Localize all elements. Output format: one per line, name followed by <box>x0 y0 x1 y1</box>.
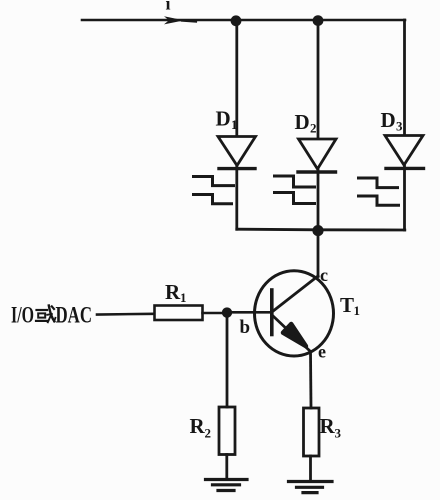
svg-text:3: 3 <box>335 426 342 441</box>
svg-text:c: c <box>320 265 328 285</box>
wire D2 branch lower <box>317 170 320 231</box>
wire right corner drop (D3 branch upper) <box>403 20 406 135</box>
svg-text:e: e <box>318 342 326 362</box>
node junction base <box>222 307 232 317</box>
svg-text:1: 1 <box>354 303 361 318</box>
svg-text:I/O: I/O <box>11 303 34 328</box>
resistor R1 <box>155 306 203 321</box>
resistor R3 <box>304 408 320 456</box>
svg-text:R: R <box>190 414 206 438</box>
wire R1 to base node <box>203 312 228 315</box>
wire R2 to ground <box>225 455 228 480</box>
node junction bus to collector <box>312 225 323 236</box>
wire D3 branch lower <box>403 166 406 230</box>
resistor R2 <box>219 407 235 455</box>
svg-text:R: R <box>165 280 181 304</box>
svg-text:R: R <box>320 414 336 438</box>
svg-text:T: T <box>340 293 354 317</box>
wire D1 branch lower <box>235 167 238 230</box>
ground under R2 <box>206 480 248 491</box>
photo arrows at D1 <box>194 177 234 204</box>
node junction top-right (D2 tap) <box>313 15 324 26</box>
svg-text:b: b <box>240 317 251 338</box>
svg-text:DAC: DAC <box>56 303 93 328</box>
photo arrows at D2 <box>275 176 315 204</box>
photo arrows at D3 <box>359 178 399 205</box>
wire input to R1 <box>97 312 154 315</box>
wire emitter vertical <box>309 352 312 409</box>
svg-text:3: 3 <box>396 119 403 134</box>
diode D1 <box>218 137 256 169</box>
node junction top-left (D1 tap) <box>231 15 242 26</box>
svg-text:D: D <box>216 107 231 131</box>
svg-text:D: D <box>295 110 310 134</box>
svg-text:2: 2 <box>205 426 212 441</box>
wire D1 branch upper <box>235 20 238 136</box>
current arrow on top rail <box>164 16 184 24</box>
wire base node to base <box>227 311 272 314</box>
transistor T1 <box>255 271 334 356</box>
diode D2 <box>298 139 336 172</box>
svg-text:D: D <box>381 108 396 132</box>
wire top rail <box>82 19 405 22</box>
svg-text:2: 2 <box>310 121 317 136</box>
wire base node down to R2 <box>226 313 229 407</box>
diode D3 <box>385 136 424 169</box>
wire R3 to ground <box>309 456 312 481</box>
wire D2 branch upper <box>317 20 320 139</box>
ground under R3 <box>289 482 333 493</box>
svg-text:1: 1 <box>180 290 187 305</box>
hand-drawn CJK char: huo (or) <box>36 306 55 323</box>
wire collector vertical <box>317 231 320 277</box>
wire bottom bus <box>237 228 405 232</box>
svg-text:1: 1 <box>231 117 238 132</box>
svg-text:i: i <box>166 0 171 14</box>
